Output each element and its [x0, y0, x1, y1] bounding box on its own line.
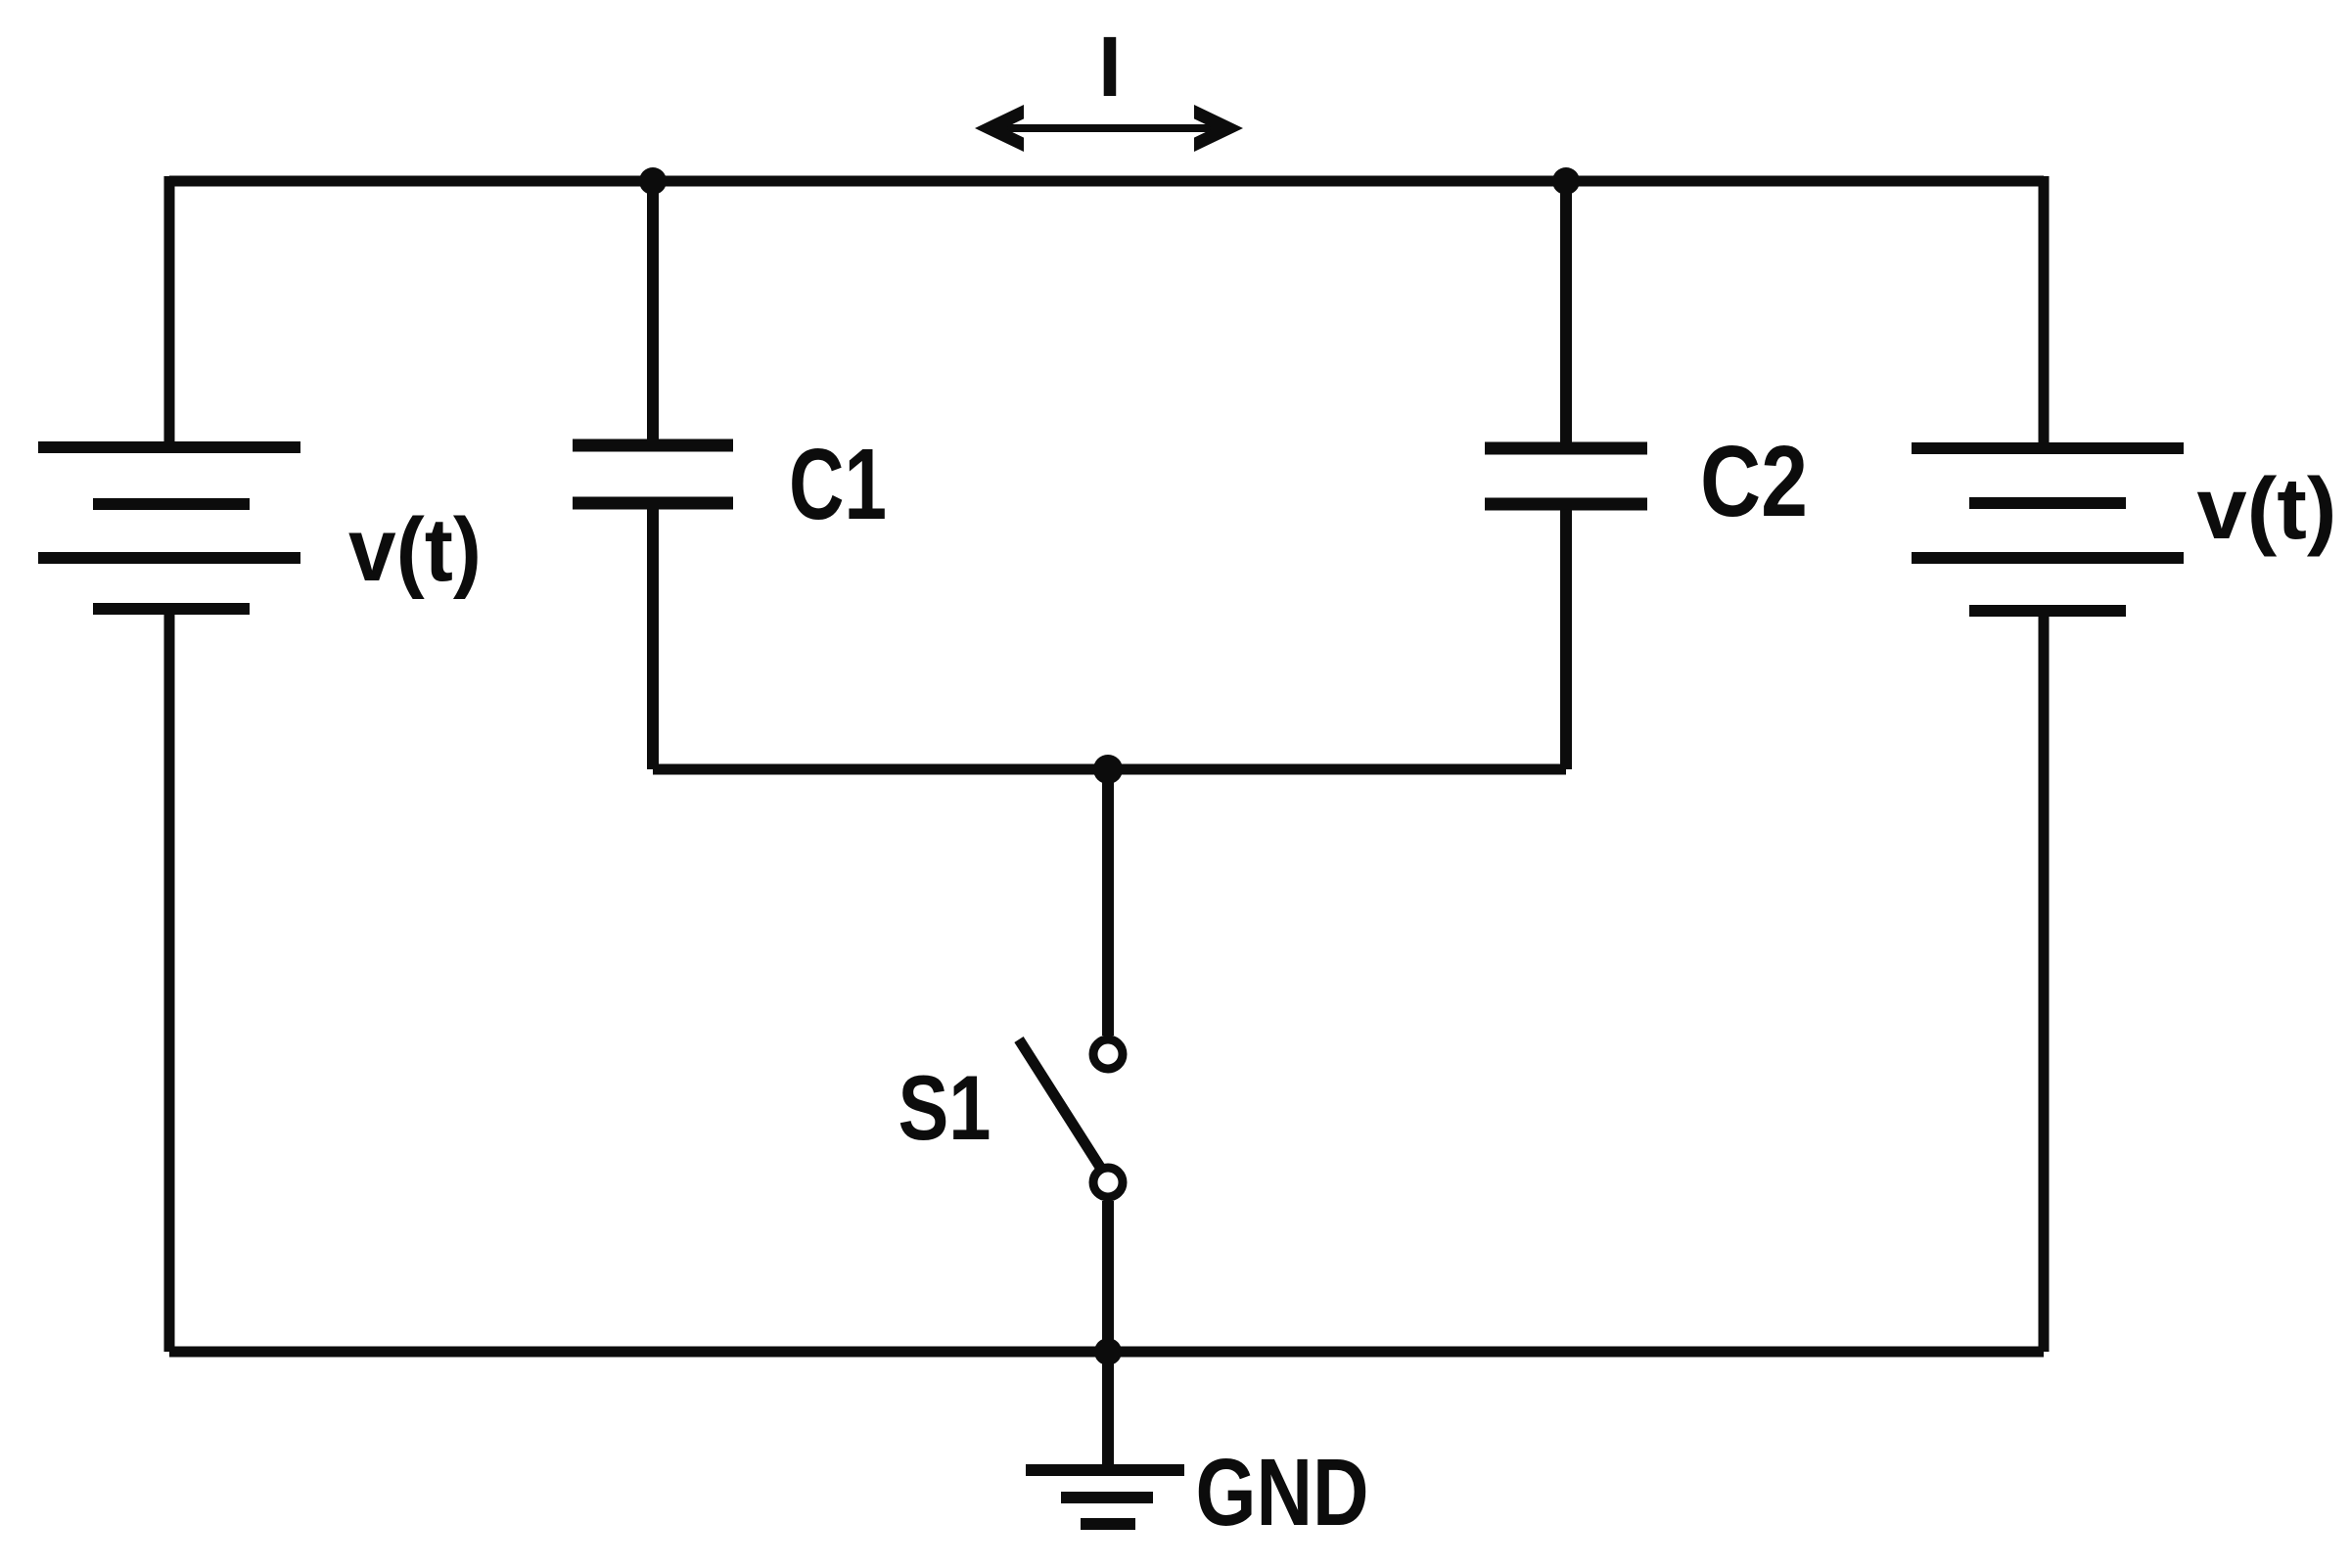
- wire bottom net (ground rail): [169, 1347, 2044, 1358]
- wire switch bottom lead: [1102, 1201, 1114, 1352]
- wire switch top lead: [1102, 769, 1114, 1036]
- svg-text:S1: S1: [899, 1056, 991, 1159]
- wire ground stem: [1102, 1352, 1114, 1470]
- svg-text:GND: GND: [1196, 1439, 1369, 1545]
- svg-text:C1: C1: [789, 428, 887, 540]
- node junction dot top C2: [1552, 167, 1580, 195]
- wire left battery bottom lead: [164, 609, 175, 1352]
- capacitor C2: [1485, 181, 1647, 769]
- wire right battery bottom lead: [2039, 611, 2050, 1352]
- current arrow I (double headed): [975, 105, 1243, 152]
- node junction dot middle: [1093, 755, 1123, 784]
- battery V1 v(t) left: [38, 447, 300, 609]
- wire middle net (capacitor bottoms): [653, 764, 1566, 775]
- svg-text:C2: C2: [1700, 425, 1808, 537]
- wire left battery top lead: [164, 176, 175, 447]
- svg-text:v(t): v(t): [2197, 459, 2337, 557]
- capacitor C1: [573, 181, 733, 769]
- node junction dot top C1: [639, 167, 667, 195]
- svg-text:I: I: [1098, 20, 1122, 115]
- wire right battery top lead: [2039, 176, 2050, 448]
- node junction dot bottom: [1094, 1338, 1122, 1365]
- switch S1: [1019, 1039, 1123, 1197]
- ground GND symbol: [1026, 1470, 1184, 1524]
- wire top net (node A rail): [169, 176, 2044, 187]
- battery V2 v(t) right: [1912, 448, 2184, 611]
- svg-text:v(t): v(t): [348, 500, 482, 600]
